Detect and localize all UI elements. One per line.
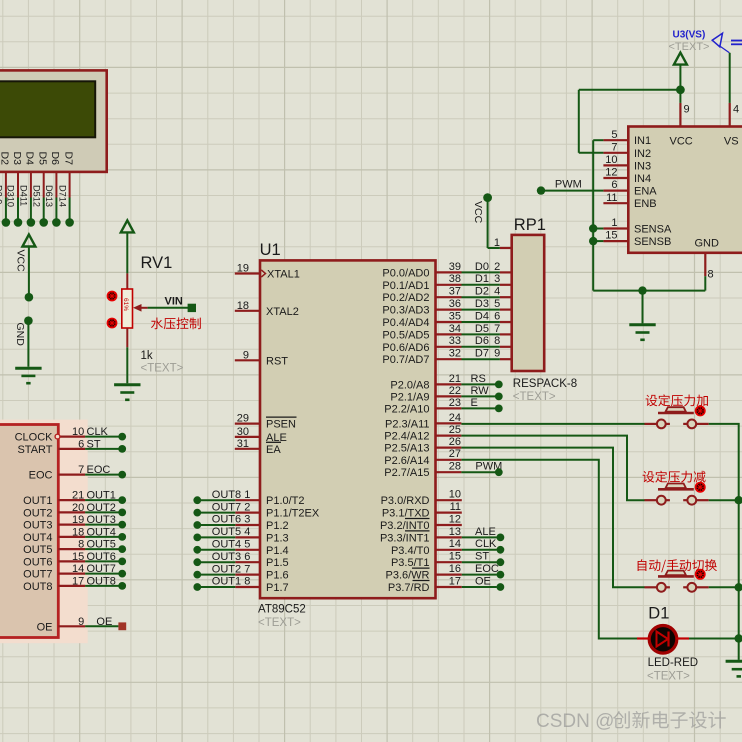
U1 pin P3.4/T0 (pin 14)	[391, 538, 462, 557]
ADC0808 U2 body	[0, 425, 58, 638]
wire RV1 top	[126, 232, 128, 273]
wire net OUT5 4 to U1	[197, 526, 250, 538]
node RS wire-end dot	[495, 381, 503, 389]
svg-text:4: 4	[494, 286, 500, 298]
ground terminal GND (left)	[24, 316, 33, 325]
wire net D6 U1 to RP1	[462, 335, 501, 347]
wire net D5 U1 to RP1	[462, 323, 501, 335]
svg-text:IN2: IN2	[634, 148, 651, 160]
wire LCD D3 down	[17, 172, 19, 198]
svg-text:OUT8: OUT8	[87, 575, 116, 587]
wire LCD D7 down	[69, 172, 71, 198]
svg-text:35: 35	[449, 310, 461, 322]
wire net OE from ADC	[85, 616, 118, 628]
svg-text:RV1: RV1	[141, 254, 173, 272]
RP1 pin stub 2	[500, 271, 512, 273]
wire net OUT8 1 to U1	[197, 489, 250, 501]
svg-text:OUT8 1: OUT8 1	[212, 489, 251, 501]
svg-text:P1.2: P1.2	[266, 520, 289, 532]
svg-text:P3.1/TXD: P3.1/TXD	[382, 508, 430, 520]
svg-text:P0.0/AD0: P0.0/AD0	[382, 267, 429, 279]
svg-text:P0.5/AD5: P0.5/AD5	[382, 329, 429, 341]
svg-text:D714: D714	[57, 185, 67, 207]
push button 设定压力加	[644, 407, 708, 428]
U3 pin IN3 (pin 10)	[603, 154, 651, 172]
node SENSB junction	[589, 237, 603, 245]
wire net CLK from ADC	[85, 426, 122, 438]
svg-text:OE: OE	[475, 575, 491, 587]
wire LCD D4 down	[30, 172, 32, 198]
svg-text:9: 9	[684, 104, 690, 116]
svg-text:20: 20	[72, 502, 84, 514]
U1 pin P3.5/T1 (pin 15)	[391, 551, 462, 570]
svg-text:15: 15	[72, 551, 84, 563]
node ground bus junction dot	[638, 286, 646, 294]
svg-text:D3: D3	[11, 152, 23, 166]
svg-text:23: 23	[449, 397, 461, 409]
node OUT6 wire-end dot	[118, 558, 126, 566]
ground symbol (left)	[15, 368, 41, 383]
svg-text:P2.3/A11: P2.3/A11	[385, 418, 429, 430]
svg-text:D2 9: D2 9	[0, 185, 4, 204]
wire net OUT2 7 to U1	[197, 563, 250, 575]
ADC0808 pin OUT3 (pin 19)	[23, 514, 85, 532]
svg-text:SENSB: SENSB	[634, 236, 671, 248]
svg-text:D7: D7	[475, 348, 489, 360]
node ST wire-end dot	[118, 445, 126, 453]
svg-text:27: 27	[449, 448, 461, 460]
U3 pin ENA (pin 6)	[603, 179, 657, 197]
svg-text:D1: D1	[475, 273, 489, 285]
svg-text:15: 15	[605, 230, 617, 242]
svg-text:XTAL2: XTAL2	[266, 306, 299, 318]
svg-text:OUT2: OUT2	[23, 507, 52, 519]
U3 pin SENSB (pin 15)	[603, 230, 671, 248]
wire net RW from U1	[461, 385, 495, 397]
svg-text:26: 26	[449, 436, 461, 448]
svg-text:P1.6: P1.6	[266, 570, 289, 582]
node OUT8 wire-end dot	[118, 582, 126, 590]
svg-text:EOC: EOC	[87, 464, 111, 476]
svg-text:P3.7/RD: P3.7/RD	[388, 582, 430, 594]
svg-text:CSDN @: CSDN @	[536, 711, 614, 732]
wire net OUT8 from ADC	[85, 575, 122, 587]
RP1 pin stub 4	[500, 296, 512, 298]
svg-text:5: 5	[494, 298, 500, 310]
wire net OUT4 5 to U1	[197, 539, 250, 551]
svg-text:P2.1/A9: P2.1/A9	[390, 391, 429, 403]
svg-text:15: 15	[449, 551, 461, 563]
svg-text:OUT6: OUT6	[23, 556, 52, 568]
svg-text:P2.4/A12: P2.4/A12	[384, 431, 429, 443]
push button 设定压力减	[644, 484, 708, 505]
wire net EOC from ADC	[85, 464, 122, 476]
svg-text:D2: D2	[0, 152, 11, 166]
node PWM wire-end dot	[537, 186, 545, 194]
ADC0808 pin EOC (pin 7)	[29, 464, 85, 482]
svg-text:OUT5 4: OUT5 4	[212, 526, 251, 538]
svg-text:31: 31	[237, 438, 249, 450]
node OE wire-end dot	[497, 583, 505, 591]
LCD screen	[0, 81, 95, 137]
U1 pin P1.7 (pin 8)	[235, 582, 288, 594]
ground symbol below U3	[629, 325, 655, 340]
svg-text:RESPACK-8: RESPACK-8	[513, 378, 577, 390]
svg-text:9: 9	[78, 616, 84, 628]
svg-text:ENB: ENB	[634, 198, 657, 210]
label 设定压力减	[643, 471, 706, 483]
svg-text:U3(VS): U3(VS)	[673, 30, 706, 41]
U3 label GND (pin 8)	[695, 238, 720, 281]
svg-text:10: 10	[605, 154, 617, 166]
svg-text:P2.7/A15: P2.7/A15	[384, 467, 429, 479]
svg-text:7: 7	[611, 141, 617, 153]
node OE dangling terminal (red square)	[118, 622, 126, 630]
svg-text:IN1: IN1	[634, 135, 651, 147]
wire net D7 U1 to RP1	[462, 348, 501, 360]
U3 pin IN2 (pin 7)	[603, 141, 651, 159]
wire net OUT1 from ADC	[85, 490, 122, 502]
ADC0808 pin OUT8 (pin 17)	[23, 575, 85, 593]
U1 pin P0.3/AD3 (pin 36)	[382, 298, 461, 317]
U3 pin SENSA (pin 1)	[603, 217, 672, 235]
svg-text:1: 1	[611, 217, 617, 229]
U3 pin IN1 (pin 5)	[603, 129, 651, 147]
wire net OUT2 from ADC	[85, 502, 122, 514]
node OUT7 2 wire-end dot	[193, 509, 201, 517]
ADC0808 pin OUT1 (pin 21)	[23, 490, 85, 508]
svg-text:6: 6	[78, 438, 84, 450]
svg-text:13: 13	[449, 526, 461, 538]
ADC0808 pin OE (pin 9)	[37, 616, 86, 634]
svg-text:33: 33	[449, 335, 461, 347]
U1 pin P0.6/AD6 (pin 33)	[382, 335, 461, 354]
svg-text:32: 32	[449, 348, 461, 360]
wire net EOC from U1 P3	[462, 563, 499, 575]
wire net OUT7 2 to U1	[197, 501, 250, 513]
node OUT7 wire-end dot	[118, 570, 126, 578]
U1 pin P2.1/A9 (pin 22)	[390, 385, 461, 404]
svg-text:29: 29	[237, 413, 249, 425]
node OUT1 8 wire-end dot	[193, 583, 201, 591]
microcontroller U1 AT89C52 body	[260, 260, 436, 598]
svg-text:P2.5/A13: P2.5/A13	[384, 443, 429, 455]
node OUT2 wire-end dot	[118, 509, 126, 517]
button actuator marker 设定压力减	[695, 482, 706, 493]
svg-text:CLOCK: CLOCK	[15, 432, 54, 444]
wire VIN	[148, 307, 188, 309]
wire LCD D5 down	[43, 172, 45, 198]
svg-text:11: 11	[606, 192, 617, 204]
svg-text:VCC: VCC	[15, 250, 27, 273]
svg-text:9: 9	[243, 349, 249, 361]
svg-text:VS: VS	[724, 135, 739, 147]
wire VS pin 4 up	[729, 53, 731, 103]
svg-text:P2.6/A14: P2.6/A14	[384, 455, 429, 467]
svg-text:START: START	[17, 444, 52, 456]
wire net RS from U1	[461, 373, 495, 385]
U3 pin ENB (pin 11)	[603, 192, 656, 210]
U1 pin P2.7/A15 (pin 28)	[384, 461, 461, 480]
ADC0808 pin CLOCK (pin 10)	[15, 426, 86, 444]
U1 pin P3.2/INT0 (pin 12)	[380, 513, 462, 532]
wire net ST from U1 P3	[462, 551, 497, 563]
RP1 pin stub 8	[500, 346, 512, 348]
U1 pin RST (pin 9)	[235, 349, 288, 367]
svg-text:12: 12	[449, 513, 461, 525]
svg-text:8: 8	[708, 269, 714, 281]
node CLK wire-end dot	[118, 433, 126, 441]
svg-text:1: 1	[494, 237, 500, 249]
U1 pin P1.1/T2EX (pin 2)	[235, 508, 320, 520]
wire P2.3 to button 1	[461, 423, 644, 425]
svg-text:P3.0/RXD: P3.0/RXD	[381, 495, 430, 507]
U1 pin ALE (pin 30)	[235, 426, 287, 444]
svg-text:P3.5/T1: P3.5/T1	[391, 557, 430, 569]
RV1 terminal marker bottom	[107, 318, 118, 329]
svg-text:CLK: CLK	[87, 426, 109, 438]
wire net D1 U1 to RP1	[462, 273, 501, 285]
RP1 pin 1 stub	[494, 237, 512, 249]
svg-text:16: 16	[449, 563, 461, 575]
node OUT6 3 wire-end dot	[193, 521, 201, 529]
node OUT4 5 wire-end dot	[193, 546, 201, 554]
svg-text:OUT5: OUT5	[23, 544, 52, 556]
svg-text:19: 19	[72, 514, 84, 526]
U1 pin P0.2/AD2 (pin 37)	[382, 286, 461, 305]
svg-text:<TEXT>: <TEXT>	[647, 671, 690, 683]
svg-text:LED-RED: LED-RED	[648, 657, 698, 669]
svg-text:D4: D4	[475, 310, 489, 322]
node CLK wire-end dot	[497, 546, 505, 554]
wire net E from U1	[461, 397, 495, 409]
svg-text:18: 18	[72, 526, 84, 538]
ADC0808 pin OUT5 (pin 8)	[23, 539, 85, 557]
power terminal VCC (left)	[22, 235, 35, 247]
svg-text:3: 3	[494, 273, 500, 285]
node PWM wire-end dot	[495, 468, 503, 476]
svg-text:ENA: ENA	[634, 186, 657, 198]
U3 pin 4 stub	[729, 103, 731, 127]
ADC0808 pin OUT4 (pin 18)	[23, 526, 85, 544]
RP1 pin stub 5	[500, 309, 512, 311]
U1 pin EA (pin 31)	[235, 438, 282, 456]
node OUT2 7 wire-end dot	[193, 571, 201, 579]
svg-text:AT89C52: AT89C52	[258, 604, 306, 616]
wire net D4 U1 to RP1	[462, 310, 501, 322]
svg-text:28: 28	[449, 461, 461, 473]
svg-text:ST: ST	[87, 438, 101, 450]
svg-text:21: 21	[449, 373, 461, 385]
U1 pin P0.7/AD7 (pin 32)	[382, 348, 461, 367]
U1 pin P0.4/AD4 (pin 35)	[382, 310, 461, 329]
svg-text:D4: D4	[24, 152, 36, 166]
svg-text:61%: 61%	[122, 298, 129, 311]
label 设定压力加	[646, 394, 708, 406]
U1 pin P2.5/A13 (pin 26)	[384, 436, 461, 455]
RV1 wiper arrow	[133, 304, 142, 312]
node OUT5 wire-end dot	[118, 545, 126, 553]
LCD module LCD1 body	[0, 70, 107, 171]
ADC0808 pin START (pin 6)	[17, 438, 85, 456]
svg-text:P3.2/INT0: P3.2/INT0	[380, 520, 430, 532]
U1 pin P3.1/TXD (pin 11)	[382, 501, 462, 520]
svg-text:D310: D310	[6, 185, 16, 207]
svg-text:SENSA: SENSA	[634, 224, 672, 236]
svg-text:39: 39	[449, 261, 461, 273]
RP1 pin stub 3	[500, 284, 512, 286]
svg-text:OUT7: OUT7	[23, 569, 52, 581]
node ALE wire-end dot	[497, 534, 505, 542]
U1 pin P2.0/A8 (pin 21)	[390, 373, 461, 392]
svg-text:17: 17	[449, 575, 461, 587]
svg-text:P2.2/A10: P2.2/A10	[384, 403, 429, 415]
power terminal U3(VS)	[669, 30, 710, 65]
svg-text:21: 21	[72, 490, 84, 502]
svg-text:P0.6/AD6: P0.6/AD6	[382, 342, 429, 354]
resistor pack RP1 RESPACK-8 body	[512, 235, 545, 371]
svg-text:ALE: ALE	[475, 526, 496, 538]
svg-text:OE: OE	[37, 621, 53, 633]
node OUT4 wire-end dot	[118, 533, 126, 541]
svg-text:D411: D411	[19, 185, 29, 206]
wire LCD D6 down	[55, 172, 57, 198]
ground symbol below RV1	[114, 385, 140, 400]
U3 label VCC (pin 9)	[670, 104, 693, 148]
svg-text:OUT4 5: OUT4 5	[212, 539, 251, 551]
svg-text:14: 14	[72, 563, 84, 575]
svg-text:OUT5: OUT5	[87, 539, 116, 551]
potentiometer RV1 body	[122, 289, 133, 328]
svg-text:OUT4: OUT4	[23, 532, 52, 544]
svg-text:P1.7: P1.7	[266, 582, 289, 594]
ADC0808 pin OUT6 (pin 15)	[23, 551, 85, 569]
node bus dot button2	[735, 496, 742, 504]
svg-text:EOC: EOC	[29, 470, 53, 482]
svg-text:10: 10	[449, 489, 461, 501]
svg-text:38: 38	[449, 273, 461, 285]
button actuator marker 设定压力加	[695, 405, 706, 416]
svg-text:OE: OE	[96, 616, 112, 628]
U3 pin 9 stub	[679, 103, 681, 127]
svg-text:EOC: EOC	[475, 563, 499, 575]
svg-text:37: 37	[449, 286, 461, 298]
U1 pin XTAL1 (pin 19)	[235, 263, 300, 281]
wire net OE from U1 P3	[462, 575, 497, 587]
U1 pin P2.4/A12 (pin 25)	[384, 424, 461, 443]
svg-text:36: 36	[449, 298, 461, 310]
U1 pin P2.3/A11 (pin 24)	[385, 412, 461, 431]
svg-text:8: 8	[78, 539, 84, 551]
svg-text:ST: ST	[475, 551, 489, 563]
svg-text:IN3: IN3	[634, 160, 651, 172]
node OUT3 wire-end dot	[118, 521, 126, 529]
svg-text:GND: GND	[695, 238, 720, 250]
svg-text:1k: 1k	[141, 350, 153, 362]
LED D1 LED-RED	[637, 626, 689, 654]
button actuator marker 自动/手动切换	[695, 569, 706, 580]
wire net D0 U1 to RP1	[462, 261, 501, 273]
svg-text:2: 2	[494, 261, 500, 273]
U1 pin P0.5/AD5 (pin 34)	[382, 323, 461, 342]
svg-text:OUT3: OUT3	[23, 520, 52, 532]
svg-text:4: 4	[733, 104, 739, 116]
node OUT1 wire-end dot	[118, 496, 126, 504]
motor driver U3 L298 body	[628, 127, 742, 253]
svg-text:P1.4: P1.4	[266, 545, 289, 557]
wire net ST from ADC	[85, 438, 122, 450]
svg-text:P3.6/WR: P3.6/WR	[385, 570, 429, 582]
svg-text:OUT7: OUT7	[87, 563, 116, 575]
wire P2.6 to LED	[461, 460, 637, 639]
svg-text:12: 12	[605, 167, 617, 179]
U1 pin P1.3 (pin 4)	[235, 532, 288, 544]
svg-text:VCC: VCC	[472, 201, 484, 224]
wire VCC to RP1 pin 1	[488, 199, 500, 248]
svg-text:P1.1/T2EX: P1.1/T2EX	[266, 508, 320, 520]
svg-text:P0.4/AD4: P0.4/AD4	[382, 317, 429, 329]
svg-text:OUT6 3: OUT6 3	[212, 514, 251, 526]
svg-text:P0.2/AD2: P0.2/AD2	[382, 292, 429, 304]
U1 pin P1.6 (pin 7)	[235, 570, 288, 582]
U1 pin P1.2 (pin 3)	[235, 520, 288, 532]
wire net PWM from U1	[461, 461, 502, 473]
svg-text:OUT3: OUT3	[87, 514, 116, 526]
svg-text:D2: D2	[475, 286, 489, 298]
svg-text:11: 11	[450, 501, 461, 513]
svg-text:E: E	[471, 397, 478, 409]
svg-text:P3.4/T0: P3.4/T0	[391, 545, 430, 557]
U3 pin IN4 (pin 12)	[603, 167, 651, 185]
svg-text:OUT7 2: OUT7 2	[212, 501, 251, 513]
U1 pin P2.6/A14 (pin 27)	[384, 448, 461, 467]
node D2 wire-end dot	[2, 218, 11, 227]
svg-text:D512: D512	[31, 185, 41, 207]
label 自动/手动切换	[638, 559, 717, 572]
ground symbol bottom right	[726, 661, 742, 676]
node ST wire-end dot	[497, 558, 505, 566]
svg-text:14: 14	[449, 538, 461, 550]
RP1 pin stub 6	[500, 321, 512, 323]
svg-text:IN4: IN4	[634, 173, 651, 185]
ADC0808 selection halo	[0, 420, 88, 644]
wire net OUT5 from ADC	[85, 539, 122, 551]
svg-text:RST: RST	[266, 355, 288, 367]
svg-text:OUT6: OUT6	[87, 551, 116, 563]
svg-text:9: 9	[494, 348, 500, 360]
svg-text:5: 5	[611, 129, 617, 141]
svg-text:OUT1 8: OUT1 8	[212, 576, 251, 588]
wire VS supply to IN2	[579, 90, 681, 153]
RP1 pin stub 7	[500, 333, 512, 335]
svg-text:PSEN: PSEN	[266, 419, 296, 431]
U1 pin P1.5 (pin 6)	[235, 557, 288, 569]
node EOC wire-end dot	[497, 571, 505, 579]
svg-text:25: 25	[449, 424, 461, 436]
wire PWM to ENA	[541, 178, 603, 190]
node D3 wire-end dot	[14, 218, 23, 227]
svg-text:OUT3 6: OUT3 6	[212, 551, 251, 563]
node E wire-end dot	[495, 405, 503, 413]
svg-text:EA: EA	[266, 444, 281, 456]
wire ground bus under U3	[593, 276, 705, 323]
node SENSA junction	[589, 224, 603, 232]
U1 pin P1.4 (pin 5)	[235, 545, 288, 557]
U1 pin P1.0/T2 (pin 1)	[235, 495, 304, 507]
mouse cursor arrow (blue)	[712, 33, 742, 53]
wire net OUT1 8 to U1	[197, 576, 250, 588]
ADC0808 pin OUT7 (pin 14)	[23, 563, 85, 581]
